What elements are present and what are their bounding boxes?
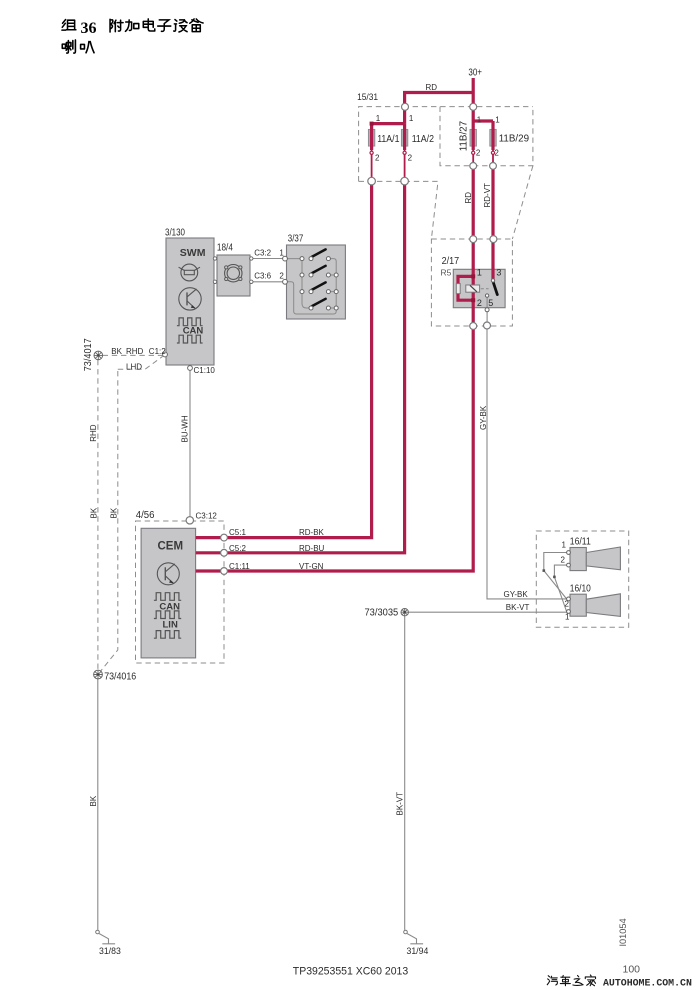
svg-text:C5:1: C5:1	[229, 528, 246, 537]
svg-text:30+: 30+	[468, 68, 482, 79]
svg-text:LIN: LIN	[163, 620, 178, 631]
svg-text:BK: BK	[110, 507, 119, 518]
svg-text:2: 2	[279, 271, 284, 280]
svg-text:36: 36	[81, 20, 97, 37]
svg-text:1: 1	[409, 114, 414, 123]
svg-text:3: 3	[496, 268, 501, 278]
svg-text:16/10: 16/10	[570, 584, 591, 595]
svg-text:11A/2: 11A/2	[412, 134, 435, 145]
svg-text:1: 1	[477, 116, 482, 125]
svg-text:73/4017: 73/4017	[83, 338, 94, 371]
svg-text:RD: RD	[426, 83, 438, 92]
svg-text:2: 2	[561, 556, 566, 565]
svg-text:2: 2	[375, 154, 380, 163]
svg-text:C3:12: C3:12	[196, 511, 218, 520]
svg-text:BK-VT: BK-VT	[506, 603, 530, 612]
svg-text:18/4: 18/4	[217, 243, 233, 254]
svg-text:C5:2: C5:2	[229, 544, 246, 553]
svg-text:11B/29: 11B/29	[499, 133, 530, 144]
svg-text:TP39253551 XC60 2013: TP39253551 XC60 2013	[293, 965, 408, 977]
svg-text:RHD: RHD	[89, 424, 98, 442]
svg-text:2: 2	[476, 149, 481, 158]
svg-text:BU-WH: BU-WH	[180, 415, 189, 442]
svg-text:11B/27: 11B/27	[459, 120, 470, 151]
svg-text:5: 5	[488, 298, 493, 308]
svg-text:2/17: 2/17	[442, 256, 460, 267]
svg-text:CEM: CEM	[158, 541, 184, 553]
svg-text:RHD: RHD	[126, 347, 144, 356]
svg-text:LHD: LHD	[126, 363, 142, 372]
svg-text:GY-BK: GY-BK	[479, 405, 488, 430]
svg-text:BK: BK	[89, 795, 98, 806]
svg-text:73/4016: 73/4016	[104, 671, 136, 682]
svg-text:RD: RD	[464, 192, 473, 204]
svg-text:AUTOHOME.COM.CN: AUTOHOME.COM.CN	[603, 977, 692, 988]
svg-text:31/94: 31/94	[407, 946, 429, 957]
svg-text:C1:11: C1:11	[229, 562, 250, 571]
svg-text:1: 1	[376, 114, 381, 123]
svg-text:2: 2	[565, 600, 570, 609]
svg-text:3/130: 3/130	[165, 227, 185, 238]
svg-text:BK: BK	[111, 347, 122, 356]
svg-text:R5: R5	[441, 268, 452, 278]
svg-text:15/31: 15/31	[357, 92, 378, 103]
svg-text:RD-BU: RD-BU	[299, 544, 325, 553]
svg-text:RD-VT: RD-VT	[483, 183, 492, 208]
svg-text:GY-BK: GY-BK	[504, 590, 529, 599]
svg-text:16/11: 16/11	[570, 536, 591, 547]
svg-text:11A/1: 11A/1	[377, 134, 400, 145]
svg-text:73/3035: 73/3035	[365, 608, 399, 619]
svg-text:VT-GN: VT-GN	[299, 562, 324, 571]
svg-text:31/83: 31/83	[99, 946, 121, 957]
svg-text:C1:2: C1:2	[149, 347, 166, 356]
svg-text:BK: BK	[90, 507, 99, 518]
svg-text:1: 1	[279, 248, 284, 257]
svg-text:1: 1	[565, 613, 570, 622]
svg-text:BK-VT: BK-VT	[396, 792, 405, 816]
svg-text:2: 2	[494, 149, 499, 158]
svg-text:4/56: 4/56	[136, 510, 155, 521]
svg-text:RD-BK: RD-BK	[299, 528, 325, 537]
svg-text:SWM: SWM	[180, 247, 206, 259]
svg-text:3/37: 3/37	[288, 233, 304, 244]
svg-text:1: 1	[495, 116, 500, 125]
svg-text:2: 2	[408, 154, 413, 163]
svg-text:C3:6: C3:6	[254, 271, 271, 280]
svg-text:2: 2	[477, 298, 482, 308]
svg-text:1: 1	[477, 268, 482, 278]
svg-text:C3:2: C3:2	[254, 248, 271, 257]
svg-text:1: 1	[562, 541, 567, 550]
svg-text:100: 100	[623, 964, 641, 976]
svg-text:I01054: I01054	[618, 918, 628, 946]
svg-text:C1:10: C1:10	[194, 366, 216, 375]
